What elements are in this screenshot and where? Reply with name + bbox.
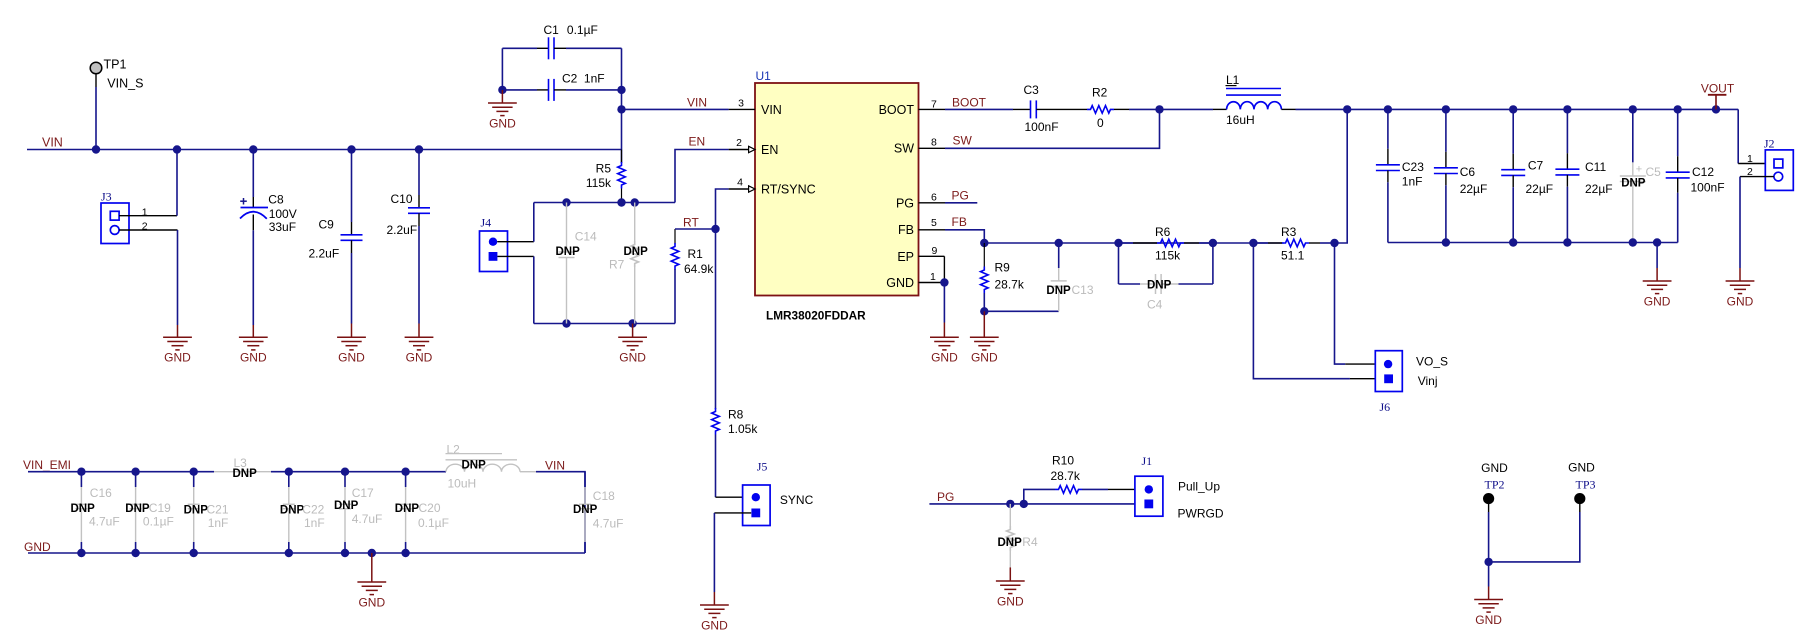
svg-text:C19: C19	[149, 501, 171, 515]
pin 2 label J2	[1747, 166, 1753, 178]
svg-text:1: 1	[142, 206, 148, 218]
capacitor C10	[387, 192, 431, 237]
wire EMI top rail C	[536, 472, 585, 553]
svg-text:SYNC: SYNC	[780, 493, 814, 507]
svg-text:DNP: DNP	[556, 246, 581, 258]
wire EMI gnd tap	[371, 552, 373, 555]
capacitor C23	[1376, 109, 1424, 242]
wire TP2 stub	[1488, 504, 1490, 512]
svg-text:C12: C12	[1692, 165, 1714, 179]
svg-text:GND: GND	[931, 351, 958, 365]
svg-text:1: 1	[1747, 153, 1753, 165]
svg-text:28.7k: 28.7k	[1051, 469, 1081, 483]
svg-text:R2: R2	[1092, 85, 1108, 99]
svg-text:R5: R5	[596, 161, 612, 175]
inductor L1	[1213, 73, 1296, 127]
svg-text:SW: SW	[894, 142, 914, 156]
junction	[249, 145, 257, 153]
pin 6 PG	[919, 191, 946, 203]
junction	[285, 468, 293, 476]
svg-text:2: 2	[736, 137, 742, 149]
pin 7 BOOT	[919, 99, 946, 111]
junction	[1629, 238, 1637, 246]
svg-text:100nF: 100nF	[1691, 180, 1725, 194]
svg-text:VIN: VIN	[687, 96, 707, 110]
wire J4 pin1 up	[533, 203, 535, 242]
svg-text:GND: GND	[1644, 294, 1671, 308]
ground	[488, 90, 517, 130]
wire J2 pin1 stub	[1738, 163, 1765, 165]
wire C1C2 right vertical	[621, 48, 623, 163]
svg-text:R9: R9	[995, 260, 1011, 274]
svg-text:GND: GND	[1475, 613, 1502, 627]
svg-text:VIN: VIN	[42, 135, 63, 149]
wire J3 pin1	[119, 215, 177, 217]
wire EMI bottom rail	[28, 552, 585, 554]
wire Vinj stub	[1350, 378, 1375, 380]
svg-text:C14: C14	[575, 229, 597, 243]
pin 5 FB	[919, 217, 946, 230]
svg-text:GND: GND	[619, 351, 646, 365]
svg-text:C17: C17	[352, 486, 374, 500]
junction	[1114, 239, 1122, 247]
junction	[341, 468, 349, 476]
wire R3 to VOUT rail	[1335, 109, 1348, 243]
svg-text:U1: U1	[756, 69, 772, 83]
wire C1 right	[566, 47, 622, 49]
power symbol VOUT	[1701, 81, 1735, 109]
svg-text:GND: GND	[971, 351, 998, 365]
junction	[341, 549, 349, 557]
wire PG stub	[945, 202, 977, 204]
capacitor C6	[1434, 109, 1487, 242]
net label FB	[952, 215, 967, 229]
svg-text:R10: R10	[1052, 453, 1074, 467]
wire C8 to gnd	[252, 230, 254, 325]
capacitor C9	[309, 217, 363, 260]
junction	[1509, 238, 1517, 246]
wire R8 to J5 pin1	[716, 496, 743, 498]
junction	[1209, 239, 1217, 247]
wire J2 pin2 to gnd	[1739, 177, 1741, 268]
svg-text:GND: GND	[164, 351, 191, 365]
junction	[498, 86, 506, 94]
svg-text:VIN: VIN	[761, 103, 782, 117]
junction	[1509, 105, 1517, 113]
junction	[631, 198, 639, 206]
svg-text:SW: SW	[953, 133, 973, 147]
svg-text:C21: C21	[207, 503, 229, 517]
capacitor C17 DNP	[334, 472, 382, 553]
inductor L3 DNP	[214, 456, 271, 480]
wire J5 pin2 stub	[714, 512, 751, 514]
svg-text:EN: EN	[689, 135, 706, 149]
wire VIN to C8	[252, 150, 254, 198]
junction	[711, 225, 719, 233]
label VO_S	[1416, 354, 1448, 368]
svg-text:J3: J3	[101, 190, 112, 204]
svg-text:4.7uF: 4.7uF	[89, 515, 120, 529]
junction	[1674, 105, 1682, 113]
svg-text:R3: R3	[1281, 225, 1297, 239]
svg-text:C7: C7	[1528, 159, 1544, 173]
ground	[163, 325, 192, 365]
junction	[1055, 239, 1063, 247]
junction	[1330, 239, 1338, 247]
junction	[1563, 105, 1571, 113]
svg-text:GND: GND	[406, 351, 433, 365]
wire outcap bottom rail	[1388, 242, 1678, 244]
svg-text:4: 4	[737, 177, 743, 189]
svg-text:GND: GND	[886, 276, 914, 290]
svg-text:C13: C13	[1072, 283, 1094, 297]
junction	[1343, 105, 1351, 113]
svg-text:22µF: 22µF	[1460, 182, 1488, 196]
label Pull_Up	[1178, 480, 1220, 494]
wire VIN to C10	[418, 150, 420, 196]
capacitor C22 DNP	[280, 472, 325, 553]
junction	[1563, 238, 1571, 246]
junction	[347, 145, 355, 153]
wire C3 to R2	[1054, 108, 1087, 110]
net label VIN	[42, 135, 63, 149]
junction	[1020, 500, 1028, 508]
wire U1 gnd	[943, 283, 945, 323]
svg-text:22µF: 22µF	[1585, 182, 1613, 196]
wire TP2 down	[1488, 512, 1490, 562]
pin 9 EP	[919, 245, 945, 257]
wire VOUT to J2	[1737, 109, 1739, 163]
svg-text:DNP: DNP	[462, 460, 487, 472]
capacitor C4 DNP	[1119, 243, 1213, 312]
svg-text:100V: 100V	[269, 207, 297, 221]
svg-text:115k: 115k	[1155, 249, 1181, 263]
resistor R9	[981, 243, 1025, 311]
svg-text:VOUT: VOUT	[1701, 81, 1735, 95]
resistor R1	[671, 229, 714, 324]
wire PG up to R10	[1024, 489, 1055, 504]
wire C9 to gnd	[351, 253, 353, 324]
wire RT to pin4	[716, 189, 729, 229]
wire SWnode to L1	[1160, 108, 1214, 110]
wire EMI top rail B	[271, 471, 446, 473]
junction	[190, 468, 198, 476]
connector J1	[1135, 454, 1163, 516]
svg-text:28.7k: 28.7k	[995, 278, 1025, 292]
svg-text:GND: GND	[1568, 460, 1595, 474]
svg-text:GND: GND	[1727, 294, 1754, 308]
svg-text:C5: C5	[1646, 165, 1662, 179]
net label VIN pin3	[687, 96, 707, 110]
svg-text:0.1µF: 0.1µF	[143, 514, 174, 528]
svg-text:RT/SYNC: RT/SYNC	[761, 182, 816, 196]
capacitor C11	[1555, 109, 1612, 242]
svg-text:C4: C4	[1147, 298, 1163, 312]
svg-text:VO_S: VO_S	[1416, 354, 1448, 368]
svg-text:DNP: DNP	[334, 500, 359, 512]
junction	[1249, 239, 1257, 247]
wire VIN to pin3	[622, 108, 729, 110]
ground	[996, 567, 1025, 608]
wire C2 right	[566, 89, 622, 91]
junction	[1484, 558, 1492, 566]
svg-text:TP1: TP1	[104, 58, 127, 72]
svg-text:10uH: 10uH	[448, 477, 477, 491]
wire R2 right blk	[1114, 108, 1129, 110]
wire VIN to C9	[351, 150, 353, 223]
junction	[1629, 105, 1637, 113]
svg-text:C2: C2	[562, 72, 578, 86]
wire SW	[945, 109, 1160, 148]
resistor R7 DNP	[609, 203, 648, 324]
junction	[190, 549, 198, 557]
resistor R2	[1087, 85, 1114, 130]
capacitor C12	[1666, 109, 1725, 242]
wire bottom rail	[534, 323, 675, 325]
svg-text:LMR38020FDDAR: LMR38020FDDAR	[766, 309, 866, 323]
svg-text:DNP: DNP	[395, 503, 420, 515]
svg-text:VIN: VIN	[545, 459, 565, 473]
wire VO_S	[1335, 243, 1346, 364]
svg-text:100nF: 100nF	[1025, 120, 1059, 134]
wire TP3 stub	[1579, 504, 1581, 512]
svg-text:GND: GND	[701, 618, 728, 632]
svg-text:RT: RT	[683, 215, 699, 229]
wire EN	[675, 150, 729, 203]
junction	[617, 105, 625, 113]
junction	[628, 319, 636, 327]
pin 1 label J3	[142, 206, 148, 218]
label SYNC	[780, 493, 814, 507]
svg-text:C6: C6	[1460, 165, 1476, 179]
wire PG	[929, 503, 1135, 505]
capacitor C13 DNP	[1046, 243, 1093, 311]
svg-text:GND: GND	[489, 116, 516, 130]
junction	[1712, 105, 1720, 113]
svg-text:R6: R6	[1155, 225, 1171, 239]
svg-text:GND: GND	[1481, 461, 1508, 475]
svg-text:DNP: DNP	[624, 246, 649, 258]
wire FB	[945, 230, 984, 243]
wire C1C2 left vertical	[501, 48, 503, 90]
junction	[1653, 238, 1661, 246]
junction	[401, 468, 409, 476]
resistor R4 DNP	[998, 504, 1038, 568]
capacitor C7	[1501, 109, 1553, 242]
net label PG bottom	[937, 490, 954, 504]
svg-text:C3: C3	[1024, 83, 1040, 97]
svg-text:R8: R8	[728, 407, 744, 421]
svg-text:FB: FB	[952, 215, 967, 229]
junction	[1155, 105, 1163, 113]
capacitor C2	[537, 72, 605, 101]
junction	[940, 278, 948, 286]
wire RT to R8	[715, 229, 717, 409]
svg-text:J5: J5	[757, 460, 768, 474]
svg-text:C9: C9	[319, 217, 335, 231]
op-amp U1 LMR38020FDDAR	[755, 69, 919, 323]
ground	[405, 324, 434, 365]
svg-text:64.9k: 64.9k	[684, 262, 714, 276]
wire J3 pin2 to gnd	[177, 230, 179, 325]
junction	[92, 145, 100, 153]
junction	[401, 549, 409, 557]
junction	[368, 549, 376, 557]
wire J2 pin2 stub	[1740, 176, 1774, 178]
svg-text:DNP: DNP	[1621, 178, 1646, 190]
wire outgnd	[1656, 243, 1658, 269]
svg-text:C11: C11	[1585, 160, 1606, 174]
ground	[970, 311, 999, 364]
svg-text:PG: PG	[952, 188, 969, 202]
junction	[1442, 105, 1450, 113]
svg-text:EP: EP	[897, 250, 914, 264]
ground	[930, 323, 959, 365]
svg-text:0.1µF: 0.1µF	[567, 23, 598, 37]
svg-text:VIN_EMI: VIN_EMI	[23, 458, 71, 472]
svg-text:EN: EN	[761, 143, 778, 157]
junction	[131, 468, 139, 476]
svg-text:C10: C10	[391, 192, 413, 206]
ground	[357, 553, 386, 609]
capacitor C16 DNP	[71, 472, 120, 553]
wire C1 left	[502, 47, 537, 49]
svg-text:16uH: 16uH	[1226, 113, 1255, 127]
junction	[617, 198, 625, 206]
ground	[239, 325, 268, 365]
junction	[617, 86, 625, 94]
svg-text:PG: PG	[937, 490, 954, 504]
junction	[285, 549, 293, 557]
svg-text:C1: C1	[544, 23, 560, 37]
svg-text:J4: J4	[481, 216, 492, 230]
junction	[415, 145, 423, 153]
test point TP2	[1481, 461, 1508, 504]
svg-text:C20: C20	[419, 501, 441, 515]
junction	[77, 468, 85, 476]
svg-text:J1: J1	[1142, 454, 1153, 468]
pin 2 label J3	[142, 220, 148, 232]
svg-text:TP3: TP3	[1575, 478, 1595, 492]
svg-text:+: +	[1636, 164, 1642, 176]
capacitor C21 DNP	[184, 472, 229, 553]
wire VO_S stub	[1345, 363, 1375, 365]
capacitor C1	[537, 23, 598, 60]
junction	[77, 549, 85, 557]
svg-text:6: 6	[931, 191, 937, 203]
svg-text:DNP: DNP	[573, 504, 598, 516]
capacitor C8	[240, 193, 297, 235]
label PWRGD	[1178, 507, 1224, 521]
ground	[700, 592, 729, 632]
svg-text:R4: R4	[1022, 535, 1038, 549]
net label RT	[683, 215, 699, 229]
junction	[173, 145, 181, 153]
net label BOOT	[952, 95, 987, 109]
pin 1 label J2	[1747, 153, 1753, 165]
ground	[1643, 268, 1672, 308]
svg-text:PG: PG	[896, 196, 914, 210]
wire VIN to J3 pin1	[176, 150, 178, 216]
svg-text:J6: J6	[1380, 400, 1391, 414]
svg-text:C23: C23	[1402, 160, 1424, 174]
svg-text:51.1: 51.1	[1281, 249, 1305, 263]
net label SW	[953, 133, 973, 147]
junction	[131, 549, 139, 557]
wire TP gnd	[1488, 562, 1490, 587]
resistor R8	[712, 407, 759, 497]
capacitor C20 DNP	[395, 472, 449, 553]
svg-text:8: 8	[931, 137, 937, 149]
wire TP1 stub	[95, 87, 97, 150]
svg-text:GND: GND	[358, 595, 385, 609]
wire J5 pin2 to gnd	[713, 513, 715, 592]
wire C10 to gnd	[418, 226, 420, 324]
svg-text:1nF: 1nF	[208, 516, 229, 530]
svg-text:R7: R7	[609, 257, 625, 271]
svg-text:DNP: DNP	[1147, 280, 1172, 292]
svg-text:4.7uF: 4.7uF	[352, 512, 383, 526]
svg-text:GND: GND	[24, 540, 51, 554]
pin 3 VIN	[729, 97, 755, 109]
test point TP1	[90, 58, 143, 91]
svg-text:0.1µF: 0.1µF	[418, 516, 449, 530]
wire VIN rail	[27, 149, 622, 151]
capacitor C3	[1013, 83, 1059, 134]
svg-text:VIN_S: VIN_S	[107, 77, 143, 91]
connector J4	[480, 216, 508, 272]
wire C13 bottom	[1058, 310, 1060, 312]
net label VIN_EMI	[23, 458, 71, 472]
junction	[980, 307, 988, 315]
svg-text:DNP: DNP	[233, 468, 258, 480]
pin 2 EN	[729, 137, 755, 153]
capacitor C5 DNP	[1620, 109, 1661, 242]
svg-text:3: 3	[738, 97, 744, 109]
svg-text:FB: FB	[898, 223, 914, 237]
svg-text:C16: C16	[90, 486, 112, 500]
svg-text:5: 5	[931, 217, 937, 229]
label Vinj	[1418, 374, 1438, 388]
capacitor C18 DNP	[573, 472, 623, 553]
resistor R5	[586, 150, 625, 203]
svg-text:DNP: DNP	[125, 503, 150, 515]
svg-text:2.2uF: 2.2uF	[309, 247, 340, 261]
wire mid rail	[534, 202, 675, 204]
net label VIN emi	[545, 459, 565, 473]
junction	[562, 198, 570, 206]
svg-text:DNP: DNP	[280, 505, 305, 517]
svg-text:22µF: 22µF	[1526, 182, 1554, 196]
svg-text:115k: 115k	[586, 176, 612, 190]
resistor R3	[1253, 225, 1334, 263]
wire R2 to SW node	[1129, 108, 1160, 110]
svg-text:BOOT: BOOT	[879, 103, 915, 117]
junction	[562, 319, 570, 327]
junction	[1384, 105, 1392, 113]
wire RT	[675, 228, 716, 230]
svg-text:DNP: DNP	[71, 503, 96, 515]
svg-text:C8: C8	[268, 193, 284, 207]
junction	[1006, 500, 1014, 508]
connector J2	[1764, 137, 1793, 191]
wire TP3 down	[1489, 512, 1580, 562]
svg-text:1nF: 1nF	[304, 516, 325, 530]
ground	[618, 324, 647, 365]
svg-text:GND: GND	[240, 351, 267, 365]
svg-text:TP2: TP2	[1484, 478, 1504, 492]
svg-text:Pull_Up: Pull_Up	[1178, 480, 1220, 494]
